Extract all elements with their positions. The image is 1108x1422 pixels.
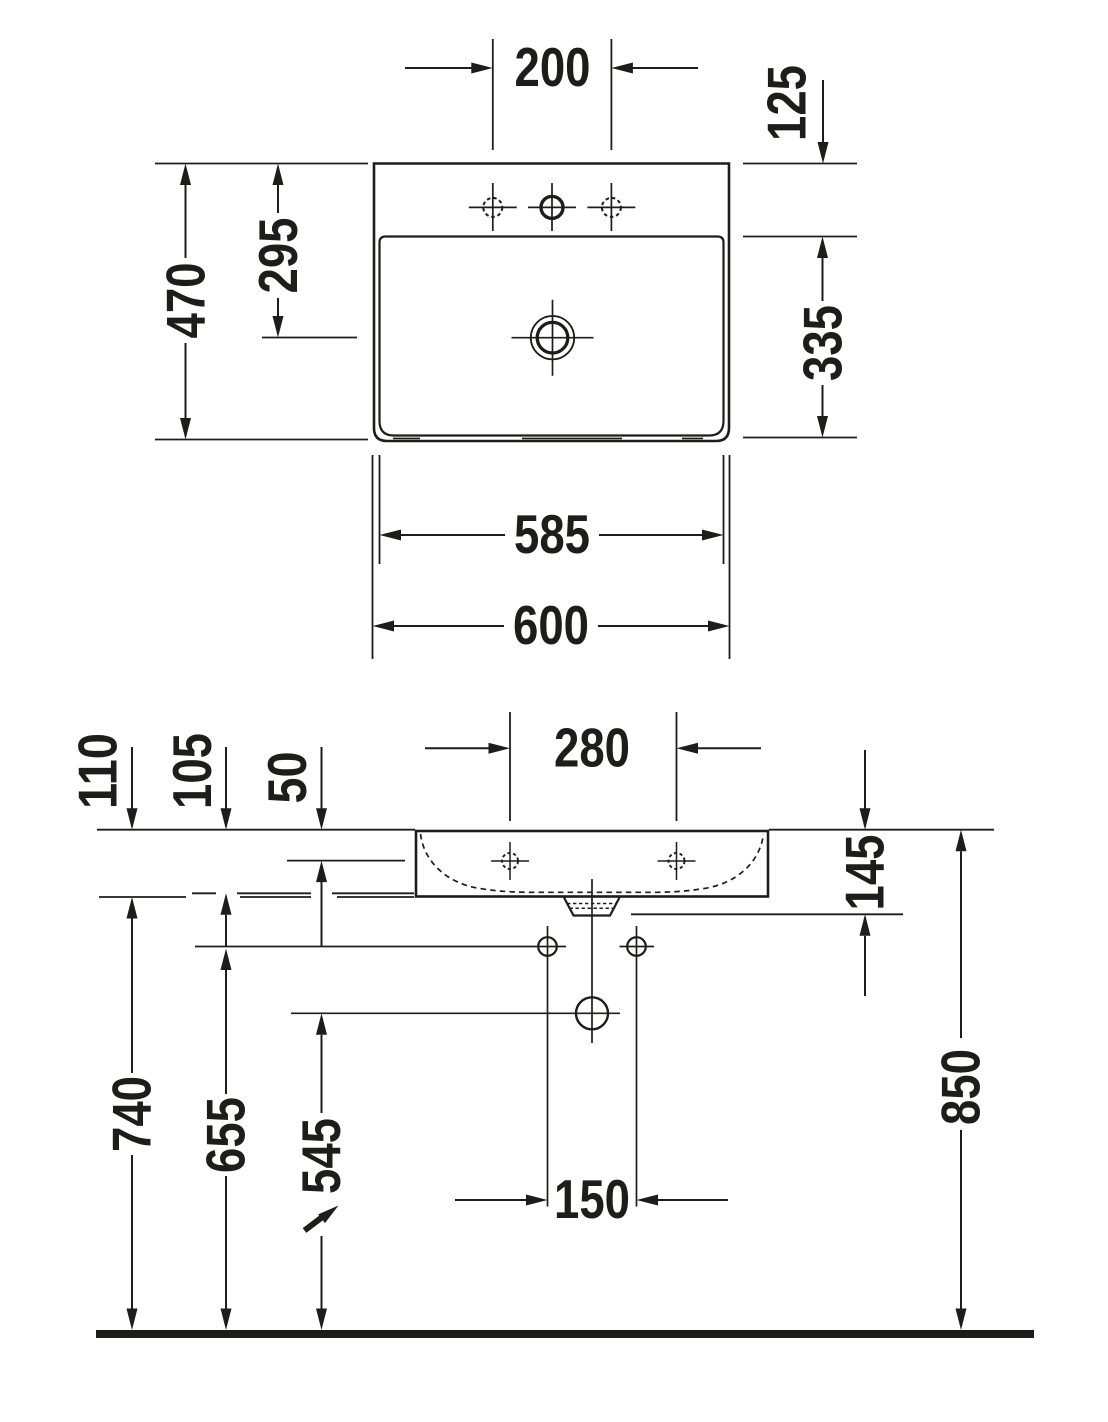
basin inner ledge (top view) (380, 237, 724, 436)
dimension 470 (left of top view) (154, 164, 216, 440)
dimension 740 (left, to floor) (100, 897, 162, 1330)
svg-text:600: 600 (513, 594, 589, 656)
svg-text:335: 335 (791, 305, 853, 381)
drain opening (top view) (512, 300, 594, 376)
reference line: mounting hole level (195, 946, 566, 948)
siphon outlet trapezoid (564, 898, 620, 916)
dimension 110 (left, upper) (67, 733, 138, 830)
floor line (96, 1330, 1034, 1338)
svg-text:145: 145 (833, 835, 895, 911)
extension lines below top view (373, 455, 730, 659)
reference line: 50 level (287, 860, 405, 862)
dimension 600 (below top view) (373, 594, 730, 656)
dimension 50 (left, upper) (256, 747, 327, 830)
svg-text:150: 150 (554, 1168, 630, 1230)
dimension 655 (to floor) (194, 949, 256, 1331)
dimension 280 (tap holes, front view) (425, 712, 761, 821)
svg-text:470: 470 (154, 263, 216, 339)
tap hole left (dashed) (469, 183, 517, 231)
dimension 295 (inner, top view) (247, 164, 357, 338)
dimension 105 (left, upper) (161, 733, 232, 830)
deck tap hole right (front view, dashed) (658, 842, 696, 880)
reference line: basin bottom level (99, 896, 414, 898)
dimension 545 (to floor) (290, 1013, 352, 1330)
svg-text:105: 105 (161, 733, 223, 809)
svg-text:200: 200 (515, 36, 591, 98)
hidden basin interior curve (dashed) (421, 834, 764, 892)
svg-text:295: 295 (247, 218, 309, 294)
wall mounting hole left (538, 926, 557, 1207)
tap hole center (solid) (528, 183, 576, 231)
dimension 145 (right of front view) (833, 750, 895, 996)
vertical centerline through siphon and drain (591, 879, 593, 1043)
siphon hidden lines (dashed) (567, 904, 617, 909)
svg-text:655: 655 (194, 1097, 256, 1173)
svg-text:585: 585 (514, 503, 590, 565)
basin bottom contour segments (top view) (393, 437, 703, 439)
extension lines left of top view (155, 164, 368, 440)
svg-text:50: 50 (256, 752, 318, 804)
dimension 585 (below top view) (380, 503, 724, 565)
reference line: siphon bottom level (631, 913, 903, 915)
dimension 200 (tap hole spacing, top) (405, 36, 698, 150)
reference line: drain level (291, 1012, 620, 1014)
svg-text:740: 740 (100, 1076, 162, 1152)
dimension 125 (right of top view) (756, 65, 829, 164)
svg-text:110: 110 (67, 733, 129, 809)
dimension 105 lower arrow (221, 893, 232, 946)
wall mounting hole right (620, 926, 655, 1207)
dimension 150 (mounting holes) (455, 1168, 728, 1230)
svg-text:850: 850 (929, 1049, 991, 1125)
deck tap hole left (front view, dashed) (491, 842, 529, 880)
washbasin outline (front view) (416, 831, 768, 897)
bent reference arrow of dimension 545 (305, 1201, 342, 1230)
reference line: 105 level (192, 892, 414, 894)
tap hole right (dashed) (587, 183, 635, 231)
svg-text:280: 280 (554, 716, 630, 778)
drain outlet hole (front view) (576, 997, 608, 1029)
dimension 50 lower arrow (316, 861, 327, 947)
dimension 335 (right of top view) (791, 237, 853, 438)
svg-text:125: 125 (756, 65, 818, 141)
washbasin outer outline (top view) (374, 164, 729, 442)
dimension 850 (right, to floor) (929, 830, 991, 1330)
extension lines right of top view (743, 164, 857, 438)
reference line: rim level (97, 829, 994, 831)
svg-text:545: 545 (290, 1118, 352, 1194)
